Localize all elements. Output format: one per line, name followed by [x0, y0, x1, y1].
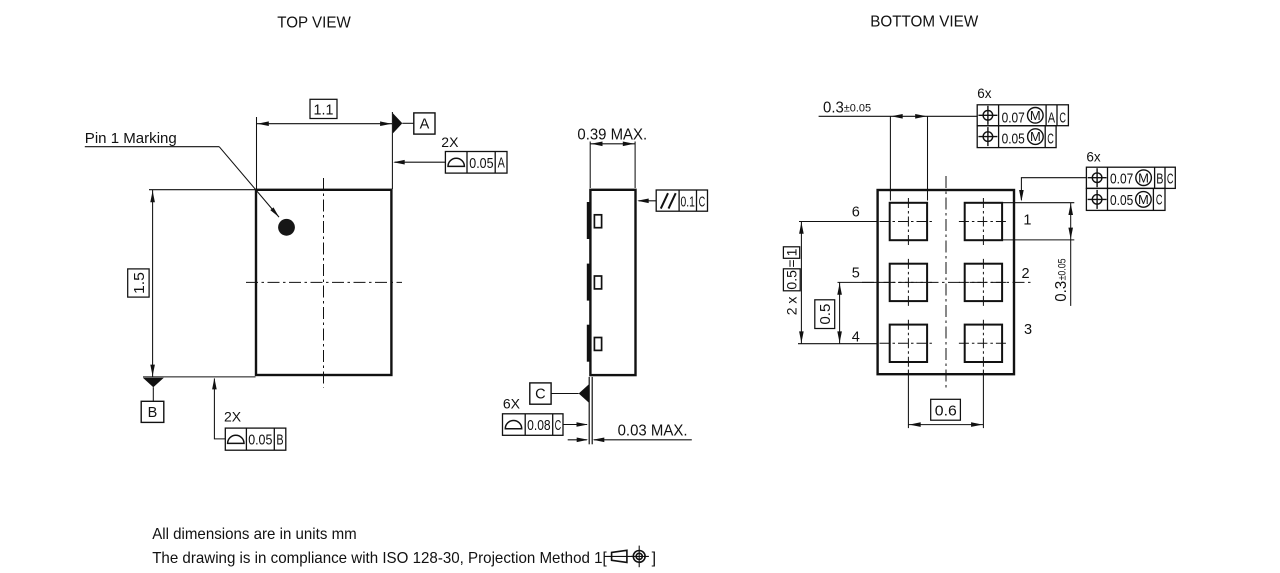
svg-text:0.08: 0.08	[527, 417, 551, 434]
svg-text:C: C	[535, 387, 545, 403]
svg-text:1.1: 1.1	[314, 102, 334, 119]
svg-text:1.5: 1.5	[131, 272, 148, 294]
label Pin 1 Marking	[85, 130, 177, 147]
solder pads 6x	[890, 203, 1002, 362]
svg-text:2X: 2X	[441, 134, 459, 150]
svg-text:A: A	[498, 156, 505, 172]
svg-text:3: 3	[1024, 322, 1032, 338]
svg-text:0.1: 0.1	[681, 194, 695, 210]
feature control frame position 0.07 M A C	[977, 105, 1068, 127]
datum A symbol	[393, 113, 435, 134]
pin number 3	[1024, 322, 1032, 338]
svg-text:C: C	[1167, 171, 1174, 187]
feature control frame position 0.05 M C (group 1)	[977, 126, 1056, 148]
dimension 0.6 lines	[908, 370, 983, 429]
svg-text:M: M	[1138, 170, 1149, 185]
feature control frame parallelism 0.1 C	[656, 190, 707, 211]
horizontal centerline (top view)	[246, 281, 402, 283]
package outline (bottom view)	[878, 190, 1014, 374]
feature control frame position 0.07 M B C	[1086, 167, 1175, 188]
svg-text:M: M	[1030, 108, 1041, 123]
leader frame group 2	[1019, 178, 1086, 202]
leader to frame 0.05 A	[393, 160, 445, 165]
svg-text:±0.05: ±0.05	[844, 103, 871, 115]
svg-text:0.5: 0.5	[817, 304, 834, 325]
svg-text:2 x: 2 x	[784, 297, 800, 316]
svg-text:0.05: 0.05	[469, 155, 493, 172]
dimension 1.1 label box	[310, 99, 337, 118]
title BOTTOM VIEW	[870, 14, 979, 31]
datum C symbol	[530, 383, 589, 404]
closing bracket	[652, 550, 656, 567]
side terminals	[587, 202, 591, 362]
svg-text:M: M	[1030, 129, 1041, 144]
pad crosshair centerlines	[880, 198, 1007, 367]
feature control frame profile 0.08 C	[503, 414, 564, 436]
dimension 1.5 label box	[128, 269, 149, 297]
dimension 0.6 label box	[931, 399, 961, 420]
label 6x (frame group 2)	[1086, 150, 1101, 165]
svg-text:A: A	[1048, 110, 1055, 126]
pin number 1	[1023, 212, 1031, 228]
svg-text:C: C	[699, 194, 706, 210]
svg-text:0.07: 0.07	[1002, 110, 1025, 127]
vertical centerline (bottom view)	[945, 176, 947, 389]
pin number 4	[852, 329, 860, 345]
label 0.3±0.05 (right, rotated)	[1053, 258, 1070, 301]
vertical centerline (top view)	[323, 178, 325, 388]
svg-text:Pin 1 Marking: Pin 1 Marking	[85, 130, 177, 147]
pin number 5	[852, 265, 860, 281]
dimension 0.3 top lines	[819, 114, 978, 201]
label 0.03 MAX.	[618, 423, 688, 440]
svg-text:C: C	[555, 418, 562, 434]
label 0.3±0.05 (top)	[823, 99, 871, 116]
svg-text:B: B	[148, 405, 158, 421]
dimension 2x0.5=1 lines	[798, 222, 877, 344]
svg-text:0.05: 0.05	[1002, 131, 1025, 148]
svg-text:]: ]	[652, 550, 656, 567]
svg-text:5: 5	[852, 265, 860, 281]
svg-text:0.05: 0.05	[1110, 192, 1133, 209]
label 2X (bottom)	[224, 409, 242, 425]
pin 1 marking dot	[278, 219, 295, 236]
feature control frame profile 0.05 B	[225, 428, 285, 450]
svg-text:All dimensions are in units mm: All dimensions are in units mm	[152, 526, 357, 543]
svg-text:2: 2	[1021, 266, 1029, 282]
svg-text:B: B	[1156, 171, 1163, 187]
dimension 0.39 lines	[590, 142, 635, 189]
svg-text:6x: 6x	[977, 86, 992, 101]
label 0.5 (rotated)	[815, 300, 835, 329]
svg-text:C: C	[1059, 110, 1066, 126]
package body outline (top view)	[256, 190, 391, 375]
package body outline (side view)	[590, 190, 635, 375]
svg-text:0.05: 0.05	[248, 432, 272, 449]
note compliance	[152, 550, 607, 567]
svg-text:0.3: 0.3	[1053, 281, 1070, 302]
label 6x (frame group 1)	[977, 86, 992, 101]
svg-text:A: A	[420, 117, 430, 133]
pin number 2	[1021, 266, 1029, 282]
dimension 0.3 right lines	[1002, 203, 1074, 306]
svg-text:6X: 6X	[503, 396, 521, 412]
svg-text:0.39 MAX.: 0.39 MAX.	[577, 127, 647, 144]
dimension 0.03 arrows	[568, 438, 692, 443]
svg-text:1: 1	[784, 248, 800, 256]
svg-text:C: C	[1156, 193, 1163, 209]
svg-text:0.07: 0.07	[1110, 170, 1133, 187]
dimension 0.5 lines	[837, 282, 877, 343]
svg-text:C: C	[1047, 131, 1054, 147]
svg-text:6: 6	[852, 204, 860, 220]
svg-text:=: =	[784, 259, 800, 267]
leader to parallelism frame	[637, 199, 656, 204]
feature control frame position 0.05 M C (group 2)	[1086, 188, 1165, 210]
label 6X (side view)	[503, 396, 521, 412]
svg-text:±0.05: ±0.05	[1057, 258, 1069, 280]
datum B symbol	[141, 378, 164, 423]
title TOP VIEW	[277, 14, 351, 31]
terminal windows (side view)	[594, 215, 601, 351]
dimension 1.5 lines	[143, 190, 256, 377]
seating plane lines	[589, 377, 592, 444]
horizontal centerline (bottom view)	[862, 281, 1031, 283]
svg-text:BOTTOM VIEW: BOTTOM VIEW	[870, 14, 979, 31]
feature control frame profile 0.05 A	[445, 152, 507, 174]
leader to frame 0.05 B	[212, 378, 225, 439]
svg-text:0.5: 0.5	[784, 270, 800, 290]
pin number 6	[852, 204, 860, 220]
svg-text:The drawing is in compliance w: The drawing is in compliance with ISO 12…	[152, 550, 607, 567]
leader pin 1 marking	[85, 147, 279, 217]
dimension 1.1 lines	[257, 112, 393, 189]
svg-text:4: 4	[852, 329, 860, 345]
svg-text:B: B	[276, 433, 283, 449]
svg-text:TOP VIEW: TOP VIEW	[277, 14, 351, 31]
note units	[152, 526, 357, 543]
svg-text:0.3: 0.3	[823, 99, 844, 116]
label 2 x 0.5 = 1 (rotated)	[783, 247, 800, 315]
svg-text:1: 1	[1023, 212, 1031, 228]
svg-text:6x: 6x	[1086, 150, 1101, 165]
svg-text:0.6: 0.6	[935, 402, 957, 419]
svg-text:2X: 2X	[224, 409, 242, 425]
projection method symbol	[604, 546, 649, 568]
svg-text:M: M	[1138, 192, 1149, 207]
leader to frame 0.08 C	[563, 422, 588, 427]
svg-text:0.03 MAX.: 0.03 MAX.	[618, 423, 688, 440]
label 2X (top right)	[441, 134, 459, 150]
label 0.39 MAX.	[577, 127, 647, 144]
